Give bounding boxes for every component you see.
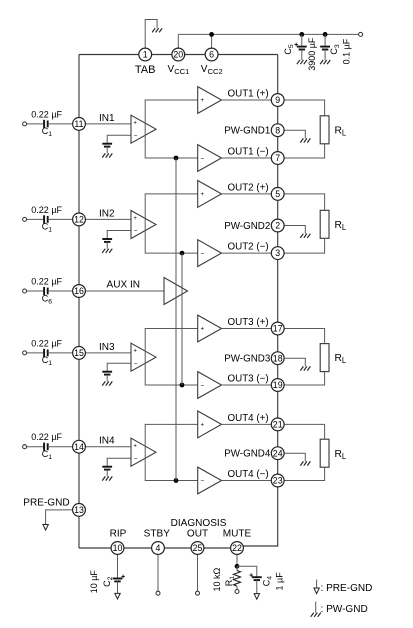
svg-text:+: +: [201, 98, 205, 104]
label PW-GND2: [224, 221, 270, 232]
wire input terminal to C1: [27, 352, 44, 354]
label RL ch4: [335, 449, 347, 461]
svg-text:C2: C2: [102, 576, 114, 587]
label OUT4 (-): [228, 469, 269, 480]
svg-text:: PRE-GND: : PRE-GND: [321, 583, 373, 594]
resistor RL ch1: [320, 116, 329, 144]
node above VCC2: [209, 32, 214, 37]
pin 7 OUT1-: [271, 152, 284, 165]
label PW-GND1: [224, 126, 270, 137]
terminal MUTE: [235, 590, 239, 594]
svg-text:VCC2: VCC2: [201, 64, 223, 76]
pin 25 DIAGNOSIS OUT: [191, 542, 204, 555]
svg-text:PW-GND1: PW-GND1: [224, 126, 270, 137]
wire bus ch1-ch4: [175, 158, 177, 481]
amplifier OUT1-: [198, 145, 222, 172]
svg-text:7: 7: [275, 153, 280, 163]
svg-text:25: 25: [193, 543, 203, 553]
terminal DIAGNOSIS OUT: [196, 591, 200, 595]
svg-text:20: 20: [173, 50, 183, 60]
svg-text:8: 8: [275, 125, 280, 135]
label 0.1 uF: [342, 38, 352, 64]
label 0.22 uF (C6): [31, 277, 62, 287]
pin 16 AUX IN: [73, 285, 86, 298]
svg-text:−: −: [201, 251, 205, 258]
wire C5 stub: [301, 34, 303, 46]
wire preamp2 feedback cap to ground: [106, 242, 108, 249]
svg-text:0.22 µF: 0.22 µF: [31, 277, 62, 287]
svg-text:RL: RL: [335, 449, 347, 461]
amplifier OUT3+: [198, 315, 222, 342]
svg-text:RL: RL: [335, 353, 347, 365]
svg-text:IN4: IN4: [99, 436, 115, 447]
IC package outline top edge: [79, 54, 278, 56]
svg-text:C1: C1: [42, 355, 53, 367]
amplifier OUT4+: [198, 411, 222, 438]
label TAB: [135, 64, 156, 76]
wire preamp4 feedback cap to ground: [106, 470, 108, 477]
svg-text:1 µF: 1 µF: [274, 572, 284, 591]
label IN1: [99, 113, 115, 124]
node MUTE: [235, 564, 240, 569]
svg-text:OUT4 (−): OUT4 (−): [228, 469, 269, 480]
label OUT2 (+): [228, 183, 269, 194]
svg-text:0.22 µF: 0.22 µF: [31, 205, 62, 215]
svg-text:TAB: TAB: [135, 64, 156, 76]
svg-text:: PW-GND: : PW-GND: [321, 604, 368, 615]
PW-GND at pin 24: [300, 461, 310, 465]
wire OUT4- to pin 23: [222, 480, 272, 482]
svg-text:−: −: [134, 456, 138, 463]
op-amp preamp3: [131, 343, 156, 371]
capacitor C5: [294, 43, 306, 50]
svg-text:STBY: STBY: [144, 529, 171, 540]
capacitor C6 aux coupling: [44, 287, 48, 295]
resistor RL ch2: [320, 210, 329, 238]
svg-text:OUT1 (−): OUT1 (−): [228, 147, 269, 158]
PRE-GND arrow at C4: [254, 594, 259, 600]
wire OUT1+ to pin 9: [222, 99, 272, 101]
pin 24 PW-GND4: [271, 447, 284, 460]
terminal IN1 input: [23, 122, 27, 126]
op-amp preamp2: [131, 211, 156, 239]
svg-text:23: 23: [273, 476, 283, 486]
label RL ch2: [335, 220, 347, 232]
wire C3 stub: [324, 34, 326, 46]
wire C1 to pin 15: [48, 352, 73, 354]
svg-text:5: 5: [275, 189, 280, 199]
amplifier OUT1+: [198, 87, 222, 114]
wire pin 21 to RL: [284, 424, 325, 439]
svg-text:18: 18: [273, 353, 283, 363]
svg-text:OUT1 (+): OUT1 (+): [228, 89, 269, 100]
wire pin 17 to RL: [284, 329, 325, 344]
pin 9 OUT1+: [271, 94, 284, 107]
svg-text:C5: C5: [283, 44, 295, 55]
wire RL to pin 19: [284, 372, 325, 385]
svg-text:C6: C6: [42, 293, 53, 305]
svg-text:11: 11: [74, 119, 83, 129]
pin 11 IN1: [73, 118, 86, 131]
svg-text:0.1 µF: 0.1 µF: [342, 38, 352, 64]
PW-GND at TAB: [152, 28, 162, 32]
wire pin 11 to preamp: [85, 123, 131, 125]
label C4: [261, 576, 273, 587]
svg-text:C1: C1: [42, 126, 53, 138]
label AUX IN: [107, 280, 141, 291]
svg-text:OUT3 (−): OUT3 (−): [228, 374, 269, 385]
svg-text:AUX IN: AUX IN: [107, 280, 141, 291]
svg-text:PW-GND3: PW-GND3: [224, 354, 271, 365]
wire RL to pin 7: [284, 144, 325, 158]
capacitor C3: [320, 47, 330, 50]
wire node to C4: [237, 566, 257, 577]
amplifier OUT2-: [198, 240, 222, 267]
capacitor preamp4 feedback: [102, 467, 112, 470]
svg-text:IN2: IN2: [99, 208, 115, 219]
label IN2: [99, 208, 115, 219]
svg-text:14: 14: [74, 442, 84, 452]
wire pin 10 to C2: [117, 554, 119, 578]
svg-text:12: 12: [74, 215, 84, 225]
terminal STBY: [156, 591, 160, 595]
svg-text:RL: RL: [335, 220, 347, 232]
wire supply rail: [178, 33, 358, 35]
resistor R1 10k: [234, 571, 241, 587]
svg-text:15: 15: [74, 348, 84, 358]
pin 20 VCC1: [172, 48, 185, 61]
wire preamp3 bus: [145, 329, 198, 386]
terminal AUX input: [23, 289, 27, 293]
wire VCC1 riser: [177, 34, 179, 48]
wire preamp3 feedback cap to ground: [106, 375, 108, 382]
pin 2 PW-GND2: [271, 219, 284, 232]
PRE-GND arrow at pin 13: [43, 525, 48, 531]
label 0.22 uF (C1): [31, 432, 62, 442]
wire pin 14 to preamp: [85, 446, 131, 448]
wire input terminal to C1: [27, 218, 44, 220]
label PRE-GND pin 13: [23, 498, 69, 509]
wire AUX terminal to C6: [27, 290, 44, 292]
PW-GND at C3: [320, 60, 330, 64]
label 3900 uF: [307, 37, 317, 71]
svg-text:21: 21: [273, 420, 283, 430]
IC package outline right edge: [244, 55, 278, 547]
svg-text:PW-GND2: PW-GND2: [224, 221, 270, 232]
wire pin 24 to PW-GND: [284, 453, 305, 461]
svg-text:10 kΩ: 10 kΩ: [212, 567, 222, 591]
label R1: [224, 576, 236, 587]
svg-text:−: −: [134, 361, 138, 368]
wire OUT1- to pin 7: [222, 157, 272, 159]
wire pin 22 to node: [236, 554, 238, 566]
wire OUT2+ to pin 5: [222, 193, 272, 195]
terminal IN3 input: [23, 351, 27, 355]
capacitor preamp1 feedback: [102, 144, 112, 147]
svg-text:IN1: IN1: [99, 113, 115, 124]
label 1 uF: [274, 572, 284, 591]
label C1: [42, 449, 53, 461]
label OUT (diagnosis): [187, 529, 208, 540]
PW-GND at pin 8: [300, 138, 310, 142]
wire C6 to pin 16: [48, 290, 73, 292]
label OUT3 (-): [228, 374, 269, 385]
label 10 kOhm: [212, 567, 222, 591]
resistor RL ch3: [320, 344, 329, 372]
svg-text:0.22 µF: 0.22 µF: [31, 432, 62, 442]
label RL ch1: [335, 125, 347, 137]
node ch2 junction: [180, 251, 185, 256]
svg-text:−: −: [134, 133, 138, 140]
svg-text:+: +: [201, 327, 205, 333]
op-amp AUX: [164, 278, 188, 305]
svg-text:DIAGNOSIS: DIAGNOSIS: [171, 518, 227, 529]
PW-GND at preamp3: [102, 381, 112, 385]
pin 8 PW-GND1: [271, 124, 284, 137]
wire preamp2 bus: [145, 194, 198, 253]
svg-text:C1: C1: [42, 222, 53, 234]
amplifier OUT4-: [198, 467, 222, 494]
svg-text:+: +: [201, 192, 205, 198]
svg-text:1: 1: [143, 50, 148, 60]
wire OUT3- to pin 19: [222, 384, 272, 386]
svg-text:3900 µF: 3900 µF: [307, 37, 317, 71]
wire preamp inverting input stub: [107, 231, 131, 240]
label OUT2 (-): [228, 242, 269, 253]
PW-GND at preamp4: [102, 476, 112, 480]
svg-text:0.22 µF: 0.22 µF: [31, 338, 62, 348]
wire C1 to pin 11: [48, 123, 73, 125]
wire input terminal to C1: [27, 123, 44, 125]
wire pin 5 to RL: [284, 194, 325, 210]
label MUTE: [223, 529, 252, 540]
label VCC2: [201, 64, 223, 76]
svg-text:+: +: [133, 444, 137, 450]
wire preamp1 bus: [145, 100, 198, 158]
pin 13 PRE-GND: [73, 504, 86, 517]
capacitor C1 input coupling: [44, 215, 48, 223]
pin 15 IN3: [73, 347, 86, 360]
pin 5 OUT2+: [271, 188, 284, 201]
pin 1 TAB: [139, 48, 152, 61]
pin 17 OUT3+: [271, 322, 284, 335]
wire bus ch2-ch3: [181, 253, 183, 385]
wire RL to pin 23: [284, 467, 325, 480]
pin 23 OUT4-: [271, 474, 284, 487]
svg-text:−: −: [134, 228, 138, 235]
PW-GND at pin 2: [300, 234, 310, 238]
svg-text:3: 3: [275, 248, 280, 258]
wire R1 to terminal: [236, 586, 238, 589]
svg-text:C1: C1: [42, 449, 53, 461]
label RL ch3: [335, 353, 347, 365]
PW-GND at preamp1: [102, 153, 112, 157]
IC package outline bottom edge: [79, 547, 237, 549]
node ch3 junction: [180, 383, 185, 388]
op-amp preamp4: [131, 438, 156, 466]
svg-text:OUT: OUT: [187, 529, 208, 540]
wire OUT3+ to pin 17: [222, 328, 272, 330]
svg-text:19: 19: [273, 380, 283, 390]
wire preamp inverting input stub: [107, 135, 131, 144]
pin 4 STBY: [152, 542, 165, 555]
wire C1 to pin 14: [48, 446, 73, 448]
label 0.22 uF (C1): [31, 205, 62, 215]
label IN4: [99, 436, 115, 447]
legend PW-GND symbol: [311, 602, 321, 617]
svg-text:17: 17: [273, 324, 283, 334]
amplifier OUT2+: [198, 181, 222, 208]
label RIP: [110, 529, 127, 540]
pin 22 MUTE: [231, 542, 244, 555]
node C5 tap: [299, 32, 304, 37]
legend PRE-GND text: [321, 583, 373, 594]
pin 14 IN4: [73, 440, 86, 453]
IC package outline left edge: [78, 55, 80, 549]
svg-text:24: 24: [273, 448, 283, 458]
pin 18 PW-GND3: [271, 352, 284, 365]
wire OUT2- to pin 3: [222, 252, 272, 254]
svg-text:2: 2: [275, 221, 280, 231]
label C5: [283, 44, 295, 55]
PW-GND at pin 18: [300, 366, 310, 370]
pin 10 RIP: [111, 542, 124, 555]
svg-text:MUTE: MUTE: [223, 529, 252, 540]
capacitor preamp3 feedback: [102, 372, 112, 375]
terminal IN2 input: [23, 217, 27, 221]
label VCC1: [168, 64, 190, 76]
svg-text:−: −: [201, 478, 205, 485]
label 0.22 uF (C1): [31, 338, 62, 348]
svg-text:PW-GND4: PW-GND4: [224, 449, 271, 460]
svg-text:0.22 µF: 0.22 µF: [31, 109, 62, 119]
svg-text:IN3: IN3: [99, 342, 115, 353]
svg-text:+: +: [133, 121, 137, 127]
wire TAB to PW-GND: [145, 20, 157, 49]
capacitor C4: [249, 573, 261, 580]
capacitor preamp2 feedback: [102, 239, 112, 242]
wire pin 18 to PW-GND: [284, 358, 305, 366]
wire pin 25 stub: [197, 554, 199, 591]
legend PW-GND text: [321, 604, 368, 615]
svg-text:OUT3 (+): OUT3 (+): [228, 317, 269, 328]
amplifier OUT3-: [198, 372, 222, 399]
label OUT4 (+): [228, 413, 269, 424]
wire pin 9 to RL: [284, 100, 325, 116]
wire C5 to ground: [301, 50, 303, 61]
svg-text:10: 10: [113, 543, 123, 553]
wire RL to pin 3: [284, 238, 325, 253]
wire pin 4 stub: [157, 554, 159, 591]
label 0.22 uF (C1): [31, 109, 62, 119]
capacitor C1 input coupling: [44, 349, 48, 357]
op-amp preamp1: [131, 115, 156, 143]
label OUT1 (+): [228, 89, 269, 100]
svg-text:RL: RL: [335, 125, 347, 137]
svg-text:VCC1: VCC1: [168, 64, 190, 76]
wire pin 13 to PRE-GND: [46, 510, 73, 525]
label C6: [42, 293, 53, 305]
label 10 uF: [89, 570, 99, 594]
resistor RL ch4: [320, 439, 329, 467]
node ch1 junction: [174, 156, 179, 161]
pin 3 OUT2-: [271, 247, 284, 260]
label C1: [42, 222, 53, 234]
label C1: [42, 355, 53, 367]
svg-text:9: 9: [275, 95, 280, 105]
wire preamp inverting input stub: [107, 363, 131, 372]
svg-text:+: +: [133, 216, 137, 222]
wire pin 15 to preamp: [85, 352, 131, 354]
svg-text:OUT4 (+): OUT4 (+): [228, 413, 269, 424]
svg-text:−: −: [201, 382, 205, 389]
label C3: [329, 44, 341, 55]
pin 21 OUT4+: [271, 418, 284, 431]
PW-GND at C5: [297, 60, 307, 64]
wire OUT4+ to pin 21: [222, 423, 272, 425]
wire pin 8 to PW-GND: [284, 130, 305, 138]
svg-text:22: 22: [232, 543, 242, 553]
wire C3 to ground: [324, 50, 326, 61]
wire preamp inverting input stub: [107, 458, 131, 467]
wire node to R1: [236, 566, 238, 570]
capacitor C1 input coupling: [44, 443, 48, 451]
label OUT3 (+): [228, 317, 269, 328]
wire C2 to PRE-GND: [117, 581, 119, 593]
svg-text:10 µF: 10 µF: [89, 570, 99, 594]
label C1: [42, 126, 53, 138]
svg-text:4: 4: [156, 543, 161, 553]
capacitor C2: [113, 575, 125, 582]
wire pin 12 to preamp: [85, 218, 131, 220]
node ch4 junction: [174, 478, 179, 483]
label OUT1 (-): [228, 147, 269, 158]
wire VCC2 riser: [211, 34, 213, 48]
svg-text:+: +: [201, 423, 205, 429]
pin 19 OUT3-: [271, 379, 284, 392]
legend PRE-GND symbol: [314, 580, 319, 594]
PRE-GND arrow at C2: [115, 593, 120, 599]
svg-text:C4: C4: [261, 576, 273, 587]
wire C4 to PRE-GND: [256, 580, 258, 594]
wire preamp1 feedback cap to ground: [106, 147, 108, 154]
svg-text:PRE-GND: PRE-GND: [23, 498, 69, 509]
svg-text:C3: C3: [329, 44, 341, 55]
pin 6 VCC2: [205, 48, 218, 61]
label C2: [102, 576, 114, 587]
label DIAGNOSIS: [171, 518, 227, 529]
svg-text:16: 16: [74, 286, 84, 296]
wire pin 2 to PW-GND: [284, 226, 305, 234]
PW-GND at preamp2: [102, 249, 112, 253]
svg-text:+: +: [133, 349, 137, 355]
svg-text:OUT2 (+): OUT2 (+): [228, 183, 269, 194]
svg-text:−: −: [201, 155, 205, 162]
label IN3: [99, 342, 115, 353]
label PW-GND3: [224, 354, 271, 365]
pin 12 IN2: [73, 213, 86, 226]
capacitor C1 input coupling: [44, 120, 48, 128]
node C3 tap: [323, 32, 328, 37]
svg-text:6: 6: [209, 50, 214, 60]
wire pin 16 to aux amp: [85, 290, 164, 292]
label PW-GND4: [224, 449, 271, 460]
svg-text:OUT2 (−): OUT2 (−): [228, 242, 269, 253]
terminal IN4 input: [23, 445, 27, 449]
svg-text:13: 13: [74, 505, 84, 515]
wire input terminal to C1: [27, 446, 44, 448]
wire C1 to pin 12: [48, 218, 73, 220]
